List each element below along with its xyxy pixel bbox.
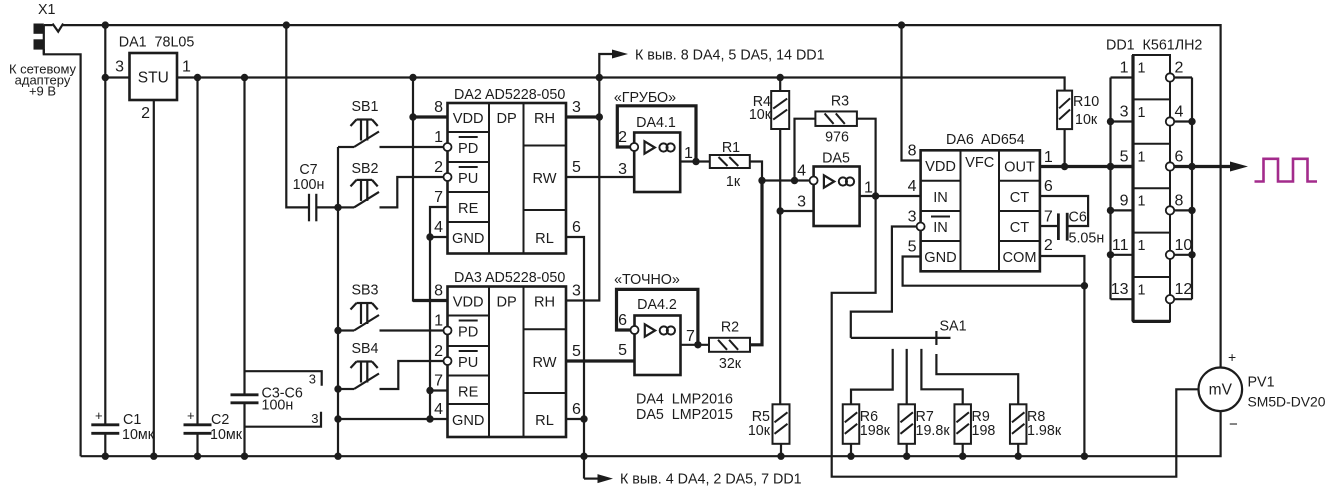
svg-text:2: 2: [1044, 237, 1053, 254]
inversion circle DD1 out 8: [1166, 206, 1174, 214]
svg-text:DA2 AD5228-050: DA2 AD5228-050: [454, 87, 565, 103]
node DA2 GND: [426, 233, 433, 240]
wire DD1 output bus: [1191, 78, 1193, 300]
svg-text:PD: PD: [458, 325, 478, 341]
svg-text:5: 5: [572, 343, 581, 360]
node R10 OUT: [1061, 163, 1068, 170]
inversion circle DD1 out 12: [1166, 295, 1174, 303]
resistor R8 1.98к: [1010, 404, 1026, 444]
node DA2 RH: [596, 113, 603, 120]
svg-text:13: 13: [1111, 281, 1129, 298]
svg-text:DA4.2: DA4.2: [637, 297, 677, 313]
svg-text:1: 1: [1138, 194, 1146, 210]
svg-text:1: 1: [864, 180, 873, 197]
wire DD1 output pin 12: [1174, 298, 1192, 300]
wire C2 branch: [196, 78, 198, 425]
svg-text:DA3 AD5228-050: DA3 AD5228-050: [454, 270, 565, 286]
svg-text:DP: DP: [497, 111, 517, 127]
svg-text:CT: CT: [1010, 190, 1030, 206]
svg-text:6: 6: [1044, 178, 1053, 195]
svg-text:1: 1: [1138, 238, 1146, 254]
node DD1 out 10: [1188, 251, 1195, 258]
node DA4.1 output: [692, 158, 699, 165]
node DD1 out 4: [1188, 118, 1195, 125]
resistor R5 10к: [773, 404, 790, 444]
svg-text:1: 1: [1044, 149, 1053, 166]
switch SA1 contact 1: [851, 349, 893, 404]
wire sum node line: [762, 179, 810, 181]
node R9 GND: [959, 453, 966, 460]
node DA2 VDD: [409, 113, 416, 120]
connector X1 detachable-joint arrow: [53, 24, 64, 32]
svg-text:6: 6: [1175, 149, 1184, 166]
resistor R2 32к: [709, 338, 750, 352]
svg-text:976: 976: [825, 130, 849, 146]
svg-text:К выв. 8 DA4, 5 DA5, 14 DD1: К выв. 8 DA4, 5 DA5, 14 DD1: [635, 48, 825, 64]
svg-text:1: 1: [1138, 105, 1146, 121]
svg-text:2: 2: [434, 343, 443, 360]
svg-text:GND: GND: [452, 413, 484, 429]
svg-text:1: 1: [434, 313, 443, 330]
resistor R10 10к: [1057, 91, 1072, 130]
wire C3-C6 group tap top: [245, 371, 322, 386]
wire DA6 IN-bar to SA1: [851, 227, 917, 338]
svg-text:3: 3: [572, 99, 581, 116]
svg-text:1к: 1к: [726, 174, 741, 190]
wire +9V top rail: [44, 24, 53, 26]
svg-text:100н: 100н: [262, 398, 294, 414]
svg-text:7: 7: [434, 373, 443, 390]
svg-text:5: 5: [618, 342, 627, 359]
svg-text:C2: C2: [211, 412, 229, 428]
node DD1 in 5: [1107, 163, 1114, 170]
wire DD1 output to arrow: [1192, 165, 1231, 168]
svg-text:C7: C7: [299, 162, 317, 178]
svg-text:1: 1: [182, 59, 191, 76]
svg-text:3: 3: [908, 209, 917, 226]
svg-text:«ГРУБО»: «ГРУБО»: [614, 90, 676, 106]
svg-text:3: 3: [618, 161, 627, 178]
svg-text:COM: COM: [1002, 250, 1036, 266]
node DA1 pin3 / C1: [102, 74, 109, 81]
node DD1 out 8: [1188, 207, 1195, 214]
wire SB3 to DA3 PD: [380, 329, 444, 331]
op-amp DA5: [814, 167, 860, 227]
switch SA1 contact 4: [936, 354, 1018, 404]
hex inverter DD1 К561ЛН2: [1133, 55, 1170, 321]
node DD1 in 3: [1107, 118, 1114, 125]
voltage-to-frequency converter DA6 AD654: [921, 150, 1040, 271]
svg-text:R1: R1: [722, 140, 740, 156]
wire DD1 output pin 6: [1174, 165, 1192, 168]
node bus / DA3 GND line: [334, 415, 341, 422]
wire DD1 output pin 2: [1174, 76, 1192, 78]
inversion circle DA4.2 pin6: [631, 326, 639, 334]
node DA6 GND COM junction: [1081, 282, 1088, 289]
svg-text:DA4.1: DA4.1: [636, 115, 676, 131]
digital potentiometer DA3 AD5228-050: [448, 287, 567, 438]
arrow К выв. 4: [598, 474, 614, 483]
svg-text:DA1 78L05: DA1 78L05: [119, 35, 195, 51]
svg-text:R3: R3: [831, 94, 849, 110]
svg-text:4: 4: [797, 163, 806, 180]
svg-text:PU: PU: [458, 355, 478, 371]
svg-text:10к: 10к: [748, 423, 771, 439]
node sum R1 R2: [758, 177, 765, 184]
svg-text:3: 3: [311, 411, 318, 426]
meter PV1 mV: [1199, 368, 1243, 412]
node DD1 in 9: [1107, 207, 1114, 214]
svg-text:VDD: VDD: [453, 111, 484, 127]
wire tap К выв. 4: [584, 478, 598, 480]
svg-text:10: 10: [1175, 237, 1193, 254]
inversion circle DD1 out 4: [1166, 117, 1174, 125]
wire DD1 output pin 8: [1174, 209, 1192, 211]
wire R1 to sum node: [750, 162, 762, 181]
svg-text:DA6 AD654: DA6 AD654: [946, 132, 1025, 148]
wire DD1 input pin 9: [1111, 209, 1134, 211]
svg-text:DA5: DA5: [822, 151, 850, 167]
svg-text:STU: STU: [138, 70, 169, 87]
wire bus to DA3 GND: [338, 418, 430, 420]
svg-text:SB3: SB3: [351, 283, 378, 299]
button SB4: [357, 360, 373, 362]
wire DA3 RE stub: [430, 389, 448, 391]
node bus / SB3: [334, 327, 341, 334]
wire DA5 output to PV1 sense: [832, 196, 1199, 477]
resistor R4 10к: [771, 91, 789, 129]
svg-text:+9 В: +9 В: [29, 84, 56, 99]
svg-text:+: +: [1228, 349, 1236, 365]
wire DD1 output pin 10: [1174, 254, 1192, 256]
wire R6 to GND: [850, 444, 852, 456]
wire DA2 VDD stub: [413, 115, 448, 118]
svg-text:19.8к: 19.8к: [916, 423, 951, 439]
wire DA4.1 feedback loop: [617, 106, 696, 162]
node +5V / DA2 VDD: [409, 74, 416, 81]
node +5V / RH and К выв.8 tap: [596, 74, 603, 81]
node bus GND: [334, 453, 341, 460]
wire DA4.2 feedback loop: [617, 289, 698, 344]
svg-text:6: 6: [572, 219, 581, 236]
wire DA6 CT pin7: [1040, 225, 1059, 227]
svg-text:198: 198: [972, 423, 996, 439]
switch SA1 wiper tick: [935, 331, 937, 345]
capacitor C6 5.05н: [1057, 213, 1060, 240]
svg-text:SM5D-DV20: SM5D-DV20: [1248, 394, 1326, 410]
svg-text:PV1: PV1: [1248, 375, 1275, 391]
svg-text:12: 12: [1175, 281, 1193, 298]
svg-text:+: +: [187, 408, 195, 423]
wire R8 to GND: [1017, 444, 1019, 456]
switch SA1 contact 2: [906, 349, 908, 404]
svg-text:−: −: [1229, 416, 1238, 433]
svg-text:32к: 32к: [719, 356, 742, 372]
node DA3 RL junction: [580, 415, 587, 422]
wire button common bus: [337, 147, 339, 456]
wire R9 to GND: [962, 444, 964, 456]
arrow output: [1230, 162, 1248, 172]
svg-text:3: 3: [1120, 104, 1129, 121]
svg-text:DA5 LMP2015: DA5 LMP2015: [636, 407, 733, 423]
capacitor C3-C6 100н: [231, 393, 259, 396]
wire R2 to sum node: [750, 181, 762, 345]
svg-text:2: 2: [434, 159, 443, 176]
svg-text:198к: 198к: [860, 423, 891, 439]
svg-text:R2: R2: [721, 320, 739, 336]
node R5 GND: [777, 453, 784, 460]
node DA3 GND: [426, 415, 433, 422]
svg-text:8: 8: [434, 99, 443, 116]
wire DA6 COM: [1040, 256, 1085, 456]
node C3-C6 GND: [241, 453, 248, 460]
svg-text:VFC: VFC: [965, 155, 994, 171]
svg-text:1: 1: [684, 145, 693, 162]
wire C7 branch from +9V: [286, 25, 309, 207]
wire DA4.1 output: [680, 160, 710, 162]
svg-text:OUT: OUT: [1004, 160, 1035, 176]
svg-text:7: 7: [686, 328, 695, 345]
wire R5 branch: [779, 211, 781, 404]
wire DA3 RW to DA4.2 pin5: [566, 359, 635, 362]
svg-text:DP: DP: [497, 295, 517, 311]
svg-text:1: 1: [1138, 283, 1146, 299]
node DA4.2 output: [694, 341, 701, 348]
wire DD1 output pin 4: [1174, 120, 1192, 122]
inversion circle DA4.1 pin2: [630, 143, 638, 151]
svg-text:3: 3: [572, 283, 581, 300]
wire SB4 to DA3 PU: [380, 361, 444, 389]
svg-text:1: 1: [1120, 60, 1129, 77]
svg-text:+: +: [95, 408, 103, 423]
svg-text:IN: IN: [933, 220, 948, 236]
svg-text:8: 8: [908, 143, 917, 160]
wire C7 to SB bus: [316, 206, 338, 208]
connector X1 plug contacts: [34, 24, 44, 34]
svg-text:RW: RW: [532, 355, 556, 371]
wire VDD chain vertical: [413, 78, 448, 301]
wire DA6 VDD from +9V: [902, 25, 921, 160]
wire GND bottom rail: [81, 411, 1221, 456]
inversion circle DD1 out 10: [1166, 251, 1174, 259]
wire C3-C6 bottom branch: [243, 403, 245, 456]
wire DA3 VDD stub: [413, 299, 448, 302]
node DA1 pin2 GND: [150, 453, 157, 460]
svg-text:К выв. 4 DA4, 2 DA5, 7 DD1: К выв. 4 DA4, 2 DA5, 7 DD1: [620, 472, 802, 488]
inversion circle DA2 PD: [444, 143, 452, 151]
svg-text:6: 6: [572, 401, 581, 418]
arrow К выв. 8: [612, 50, 628, 59]
svg-text:3: 3: [309, 372, 316, 387]
svg-text:5.05н: 5.05н: [1069, 231, 1105, 247]
node sum R3: [791, 177, 798, 184]
wire R4 bottom to DA5 pin3 node: [779, 129, 781, 211]
button SB1: [357, 118, 373, 120]
inversion circle DD1 out 2: [1166, 73, 1174, 81]
svg-text:4: 4: [434, 401, 443, 418]
node COM GND rail: [1081, 453, 1088, 460]
wire R3 left leg: [795, 119, 816, 181]
node R7 GND: [903, 453, 910, 460]
svg-text:10к: 10к: [749, 107, 772, 123]
wire DA6 OUT line: [1040, 165, 1133, 168]
svg-text:SB2: SB2: [351, 161, 378, 177]
svg-text:GND: GND: [452, 231, 484, 247]
resistor R7 19.8к: [898, 404, 915, 444]
wire DA3 GND stub: [430, 418, 448, 420]
voltage regulator DA1 78L05: [130, 53, 178, 100]
node +5V / R4: [777, 74, 784, 81]
node DA5 pin3 / R4 R5: [777, 207, 784, 214]
switch SA1 common: [851, 337, 951, 339]
wire DD1 input bus: [1109, 78, 1111, 300]
svg-text:GND: GND: [924, 250, 956, 266]
capacitor C7 100н: [308, 194, 310, 222]
node DA3 RE: [426, 387, 433, 394]
node R8 GND: [1015, 453, 1022, 460]
svg-text:DA4 LMP2016: DA4 LMP2016: [636, 392, 733, 408]
wire DA2 RL stub: [566, 237, 584, 419]
wire DA5 pin3 line: [780, 210, 813, 212]
svg-text:2: 2: [1175, 60, 1184, 77]
svg-text:DD1 К561ЛН2: DD1 К561ЛН2: [1106, 38, 1202, 54]
op-amp DA4.2: [635, 316, 681, 376]
node bus / C7 SB2: [334, 204, 341, 211]
svg-text:PU: PU: [458, 171, 478, 187]
wire C3-C6 group tap bottom: [245, 412, 322, 427]
svg-text:3: 3: [115, 59, 124, 76]
button SB2: [357, 179, 373, 181]
svg-text:2: 2: [618, 129, 627, 146]
svg-text:9: 9: [1120, 192, 1129, 209]
wire tap К выв. 8: [599, 54, 612, 78]
svg-text:RE: RE: [458, 385, 479, 401]
svg-text:5: 5: [908, 239, 917, 256]
svg-text:7: 7: [434, 189, 443, 206]
node DA5 output: [872, 192, 879, 199]
svg-text:RH: RH: [534, 295, 555, 311]
node bus / SB4: [334, 385, 341, 392]
resistor R1 1к: [710, 155, 750, 168]
node top rail / C1-DA1 branch: [102, 21, 109, 28]
svg-text:RL: RL: [535, 413, 554, 429]
svg-text:mV: mV: [1209, 382, 1233, 399]
resistor R6 198к: [843, 404, 860, 444]
svg-text:RL: RL: [535, 231, 554, 247]
wire R10 bottom: [1063, 129, 1065, 166]
node top rail / DA6 VDD branch: [898, 21, 905, 28]
node +5V / C3-C6: [241, 74, 248, 81]
svg-text:1: 1: [434, 129, 443, 146]
capacitor C1 10мк: [91, 423, 119, 426]
svg-text:10мк: 10мк: [122, 427, 155, 443]
button SB3: [357, 302, 373, 304]
inversion circle DA6 IN-bar: [917, 223, 925, 231]
wire SB2 to DA2 PU: [380, 177, 444, 207]
svg-text:4: 4: [908, 178, 917, 195]
wire R7 to GND: [906, 444, 908, 456]
inversion circle DA3 PD: [444, 327, 452, 335]
wire DD1 input pin 1: [1111, 76, 1134, 78]
wire C3-C6 top branch: [243, 78, 245, 395]
svg-text:100н: 100н: [293, 177, 325, 193]
svg-text:7: 7: [1044, 209, 1053, 226]
inversion circle DA2 PU: [444, 173, 452, 181]
wire DD1 input pin 13: [1111, 298, 1134, 300]
inversion circle DA3 PU: [444, 357, 452, 365]
square wave output symbol: [1255, 159, 1318, 182]
wire DA6 GND: [903, 257, 1085, 286]
svg-text:CT: CT: [1010, 220, 1030, 236]
resistor R9 198: [954, 404, 971, 444]
svg-text:RW: RW: [532, 171, 556, 187]
svg-text:PD: PD: [458, 141, 478, 157]
wire SB1 to DA2 PD: [380, 146, 444, 148]
node DD1 out 6: [1188, 163, 1195, 170]
svg-text:C6: C6: [1069, 210, 1087, 226]
svg-text:VDD: VDD: [453, 295, 484, 311]
wire X1 minus to GND rail: [44, 49, 81, 456]
node +5V / C2: [194, 74, 201, 81]
wire DA2 GND stub: [430, 236, 448, 238]
wire DA2 RE stub: [430, 207, 448, 419]
svg-text:5: 5: [572, 159, 581, 176]
svg-text:10мк: 10мк: [210, 427, 243, 443]
svg-text:2: 2: [141, 105, 150, 122]
node R6 GND: [847, 453, 854, 460]
wire DD1 input pin 11: [1111, 254, 1134, 256]
svg-text:5: 5: [1120, 149, 1129, 166]
node OUT input bus: [1107, 163, 1114, 170]
node C1 GND: [102, 453, 109, 460]
svg-text:R10: R10: [1073, 94, 1099, 110]
wire C1 branch: [104, 78, 106, 425]
wire R3 right leg: [857, 119, 876, 196]
switch SA1 contact 3: [921, 349, 962, 404]
wire DA3 RL stub: [566, 419, 584, 479]
wire DA4.2 output: [681, 344, 709, 346]
svg-text:«ТОЧНО»: «ТОЧНО»: [614, 272, 680, 288]
node C2 GND: [194, 453, 201, 460]
resistor R3 976: [815, 111, 857, 126]
svg-text:SB4: SB4: [351, 341, 378, 357]
svg-text:RE: RE: [458, 201, 479, 217]
svg-text:11: 11: [1112, 237, 1129, 254]
svg-text:4: 4: [1175, 104, 1184, 121]
svg-text:8: 8: [1175, 192, 1184, 209]
capacitor C2 10мк: [184, 423, 212, 426]
svg-text:8: 8: [434, 283, 443, 300]
svg-text:1.98к: 1.98к: [1027, 423, 1062, 439]
wire DA6 CT pin6 loop: [1040, 196, 1088, 226]
wire R4 top: [779, 78, 781, 92]
wire DA5 output to DA6 IN: [860, 195, 921, 197]
wire DA2 RH stub: [566, 115, 599, 118]
svg-text:C1: C1: [123, 412, 141, 428]
svg-text:SB1: SB1: [351, 99, 378, 115]
svg-text:6: 6: [618, 312, 627, 329]
svg-text:1: 1: [1138, 149, 1146, 165]
svg-text:4: 4: [434, 219, 443, 236]
svg-text:IN: IN: [933, 190, 948, 206]
wire DA1 pin2 to GND: [153, 100, 155, 456]
wire DD1 input pin 3: [1111, 120, 1134, 122]
svg-text:10к: 10к: [1075, 112, 1098, 128]
wire +9V to DA1 input: [104, 25, 106, 77]
wire RH chain vertical: [566, 78, 599, 301]
op-amp DA4.1: [634, 133, 680, 193]
digital potentiometer DA2 AD5228-050: [448, 103, 567, 254]
